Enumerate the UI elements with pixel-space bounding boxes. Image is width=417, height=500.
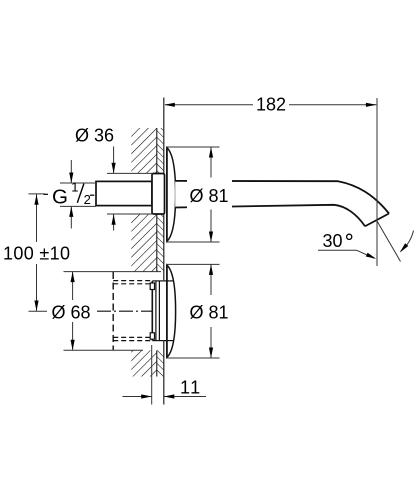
label D81 top (with mask over spout): [187, 178, 232, 210]
30 degree outlet angle reference line: [377, 221, 401, 262]
svg-text:182: 182: [256, 94, 286, 114]
valve sleeve through wall: [152, 281, 164, 341]
svg-text:30: 30: [323, 231, 343, 251]
dimension arrowheads: [34, 103, 408, 399]
svg-text:11: 11: [180, 378, 202, 398]
svg-text:1: 1: [71, 179, 78, 194]
wall face line (also 182 and 11 extension line): [163, 98, 165, 405]
wall hatch top segment: [131, 128, 164, 173]
dimension D81 bottom escutcheon: [167, 263, 220, 265]
svg-text:G: G: [52, 186, 68, 209]
bottom escutcheon Ø81: [167, 265, 176, 357]
30 degree angle arc: [401, 231, 414, 252]
dimension 11 wall clearance: [151, 345, 153, 405]
dimension D68 valve body: [64, 271, 162, 273]
degree symbol of 30: [347, 234, 352, 239]
top escutcheon Ø81: [167, 148, 176, 242]
mounting clip top: [150, 283, 154, 290]
label G 1/2 thread designation: [44, 179, 95, 208]
svg-text:Ø 36: Ø 36: [75, 126, 114, 146]
valve flange: [151, 281, 153, 340]
pipe collar Ø36: [152, 174, 165, 215]
svg-text:Ø 81: Ø 81: [190, 186, 229, 206]
svg-text:Ø 81: Ø 81: [190, 303, 229, 323]
dimension 182 spout length: [376, 98, 378, 266]
wall hatch bottom segment: [131, 350, 164, 376]
svg-text:100 ±10: 100 ±10: [3, 244, 70, 264]
spout: [175, 181, 389, 226]
dimension D36 pipe collar: [107, 172, 153, 174]
concealed valve dashed body: [113, 272, 152, 350]
wall finish boundary line: [156, 128, 158, 377]
dimension lines: [29, 98, 414, 405]
spout outlet face: [365, 214, 389, 227]
dimension D81 top escutcheon: [166, 146, 220, 148]
mounting clip bottom: [150, 333, 154, 339]
valve sleeve lines through escutcheon: [164, 281, 174, 341]
svg-text:Ø 68: Ø 68: [52, 302, 91, 322]
svg-text:2: 2: [84, 192, 91, 207]
30 degree leader line: [318, 249, 357, 251]
wall hatch middle segment: [131, 214, 164, 272]
valve center line: [97, 310, 154, 312]
supply pipe G1/2: [96, 181, 152, 205]
dimension G 1/2 thread: [60, 182, 96, 184]
dimension 100 +/-10 spacing: [29, 193, 46, 195]
